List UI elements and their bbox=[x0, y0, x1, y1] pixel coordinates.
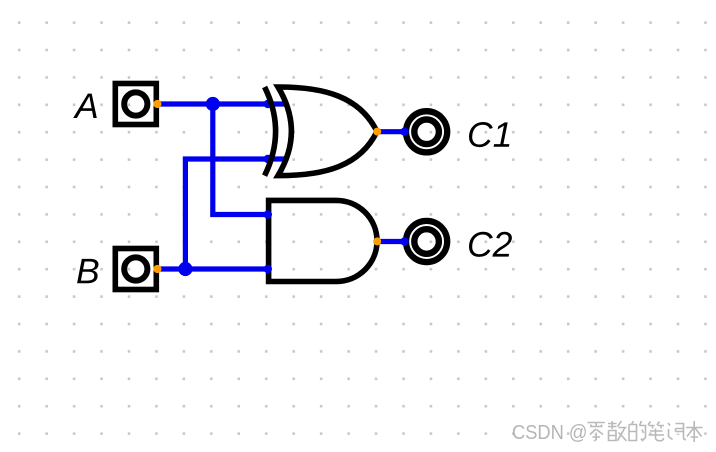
svg-text:CSDN @: CSDN @ bbox=[512, 421, 588, 444]
